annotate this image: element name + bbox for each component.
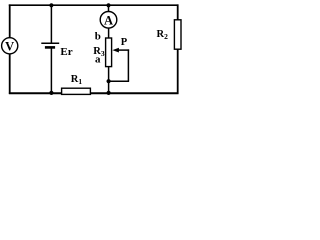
wire ammeter stub — [108, 5, 110, 12]
wire top horizontal — [9, 4, 179, 6]
wire wiper horizontal — [118, 49, 130, 51]
svg-text:A: A — [104, 13, 113, 27]
wire wiper return vertical — [127, 49, 129, 81]
battery Er short plate — [45, 46, 55, 49]
svg-text:R1: R1 — [71, 74, 83, 86]
rheostat R3 box — [106, 38, 112, 67]
wire battery branch upper — [50, 5, 52, 44]
wire ammeter to rheostat — [108, 28, 110, 39]
wiper P arrowhead — [112, 48, 119, 53]
voltmeter V — [2, 38, 18, 54]
resistor R2 box — [174, 20, 181, 49]
resistor R1 box — [62, 88, 91, 94]
wire right vertical upper — [177, 4, 179, 20]
node junction dot top battery — [49, 3, 53, 7]
wire right vertical lower — [177, 49, 179, 94]
wire rheostat bottom to bottom wire — [108, 67, 110, 94]
node junction dot top ammeter — [106, 3, 110, 7]
node junction dot bottom battery — [49, 91, 53, 95]
svg-text:P: P — [121, 37, 128, 48]
svg-text:Er: Er — [60, 46, 72, 58]
svg-text:b: b — [95, 31, 101, 43]
svg-text:R2: R2 — [157, 29, 169, 41]
svg-text:V: V — [5, 39, 14, 53]
node junction dot rheostat bottom — [107, 91, 111, 95]
wire wiper return horizontal — [109, 80, 130, 82]
wire bottom horizontal — [9, 92, 179, 94]
wire battery branch lower — [50, 48, 52, 93]
wire left vertical lower — [9, 54, 11, 94]
ammeter A — [100, 11, 117, 28]
svg-text:a: a — [95, 54, 101, 66]
wire left vertical upper — [9, 4, 11, 38]
node junction dot wiper return — [107, 79, 111, 83]
battery Er long plate — [41, 42, 59, 44]
